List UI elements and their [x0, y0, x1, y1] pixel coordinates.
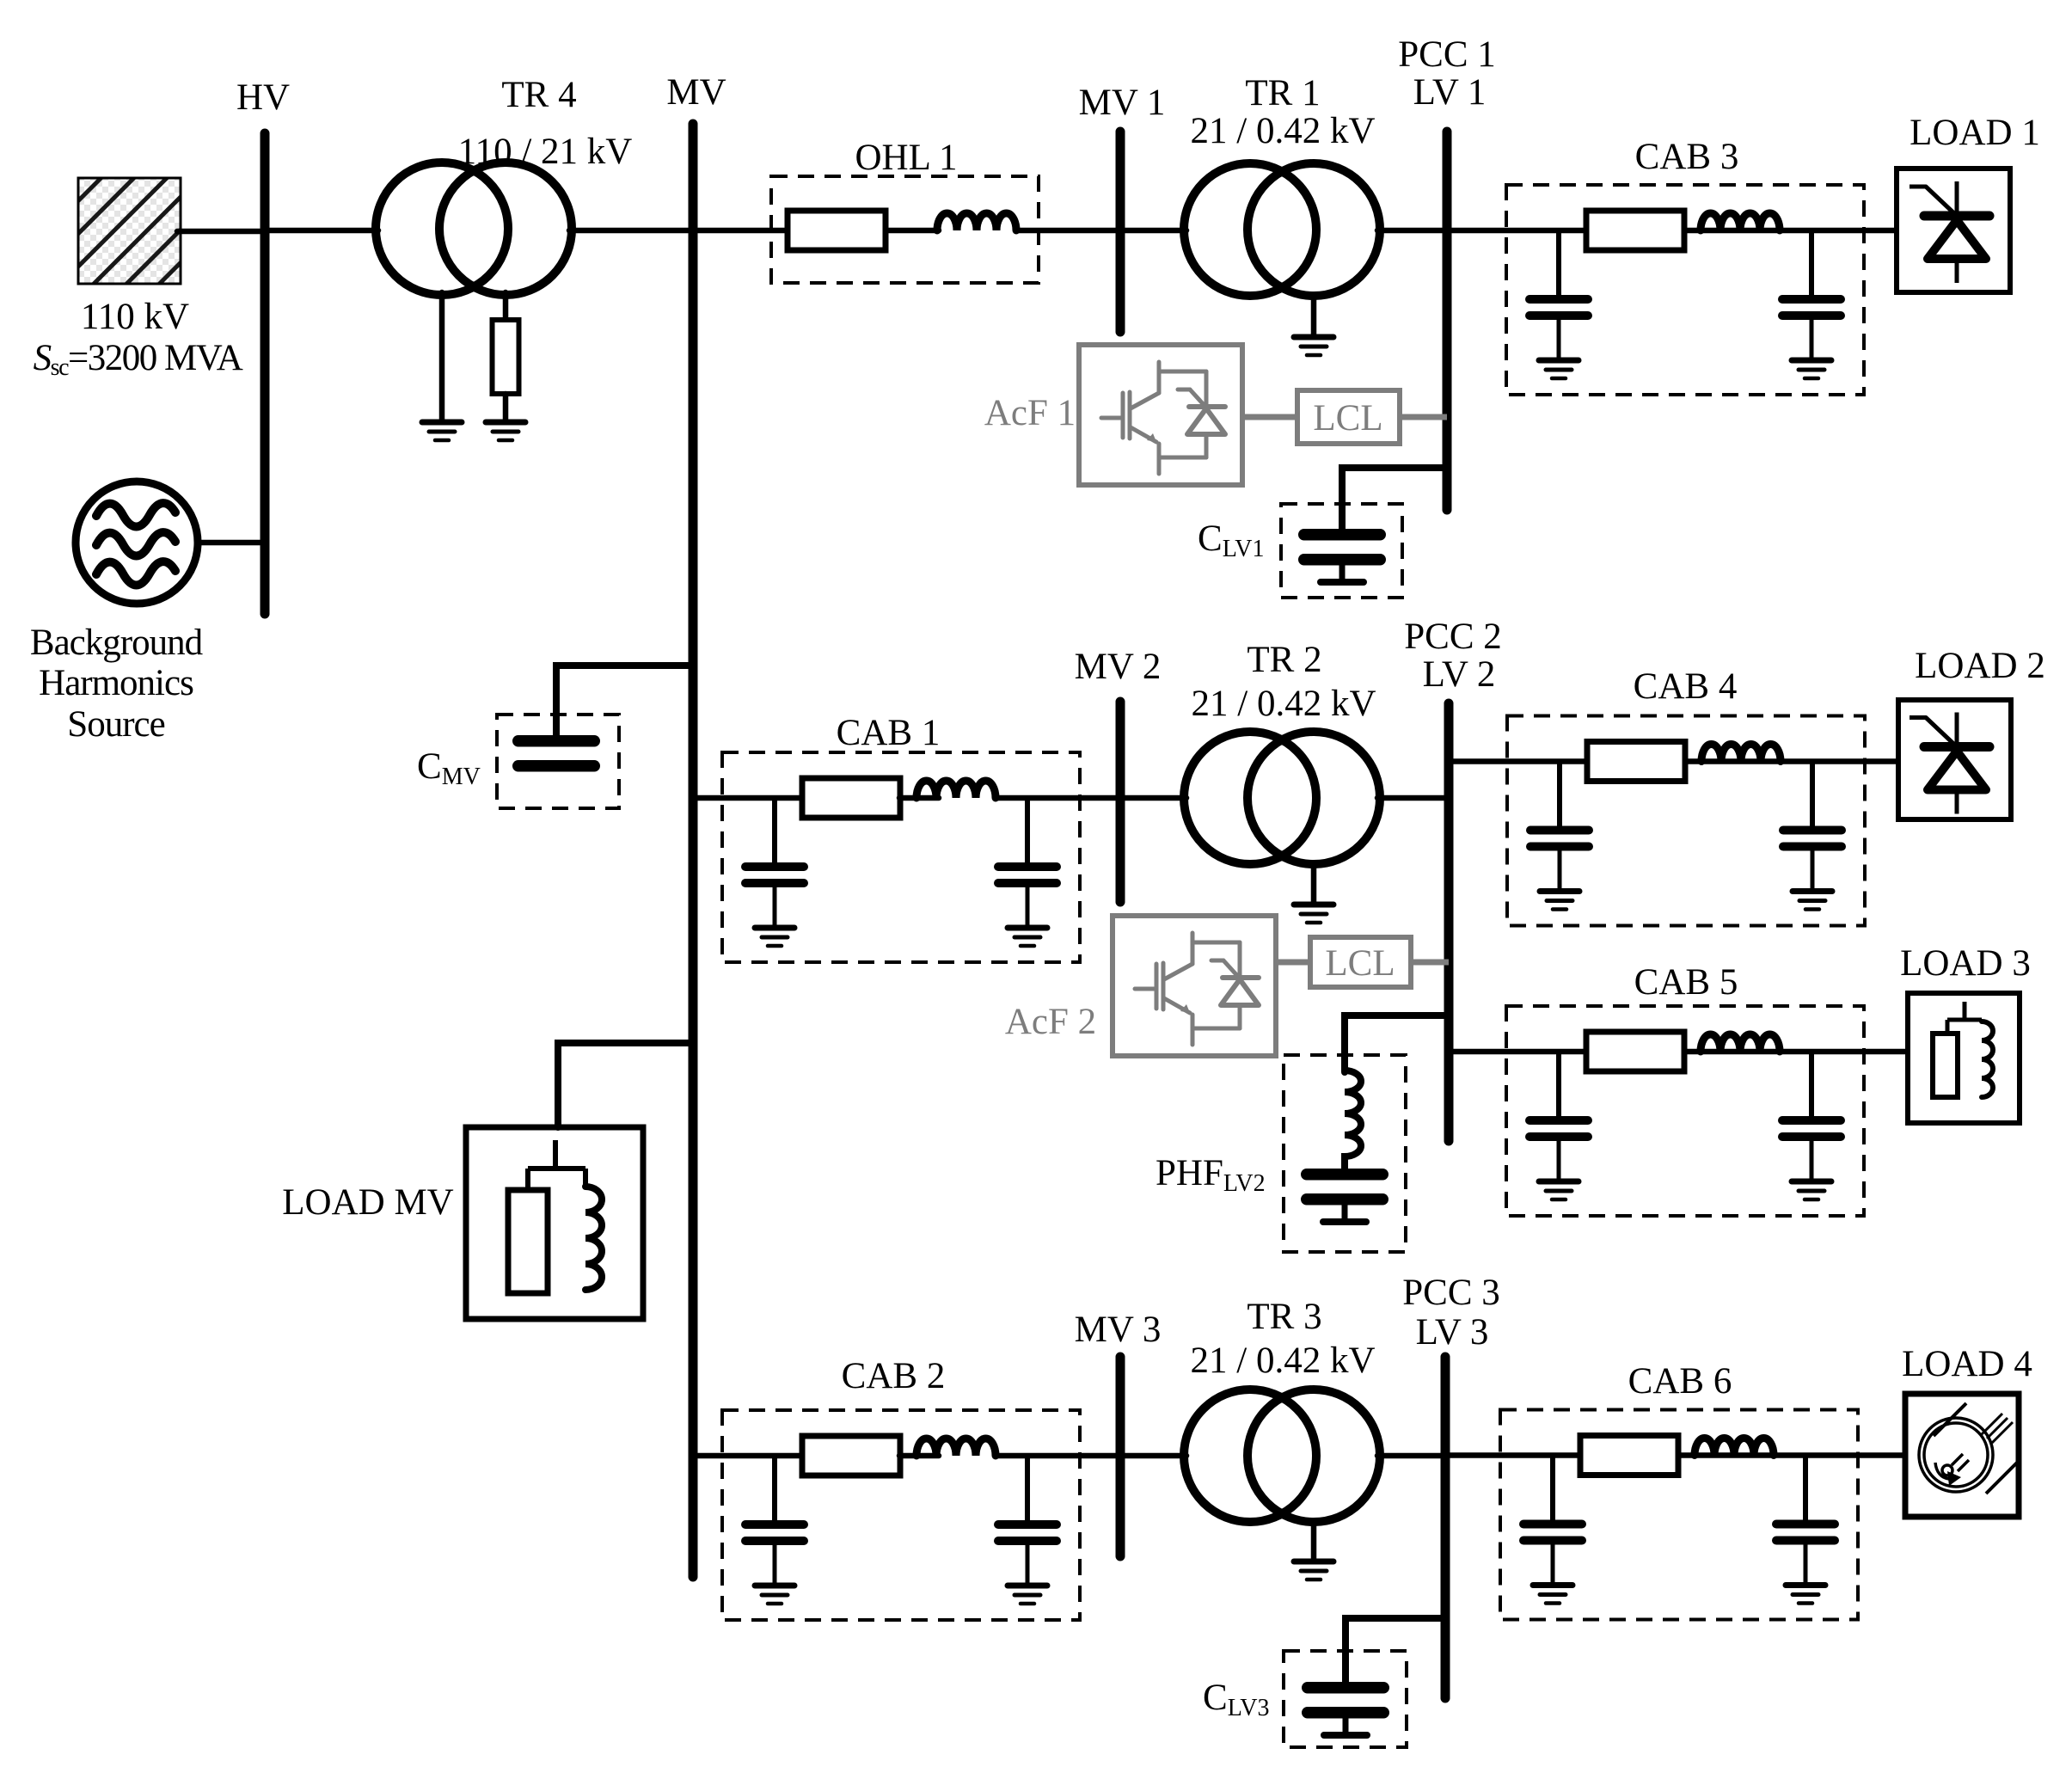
svg-text:AcF 1: AcF 1 [984, 393, 1076, 433]
wire OHL1 to MV1 bus [1016, 228, 1120, 234]
svg-text:MV 2: MV 2 [1075, 647, 1162, 687]
ground TR2 [1294, 905, 1333, 923]
wire LV3 bus to CAB6 / LOAD4 [1445, 1452, 1905, 1458]
svg-text:LCL: LCL [1313, 398, 1382, 439]
svg-text:LOAD 3: LOAD 3 [1900, 943, 2031, 984]
svg-text:TR 4: TR 4 [501, 75, 576, 115]
capacitor C LV1 [1298, 529, 1386, 586]
background harmonics source [76, 482, 198, 604]
svg-text:MV 1: MV 1 [1079, 83, 1166, 123]
svg-text:CAB 1: CAB 1 [837, 713, 941, 753]
wire harmonics source to HV bus [198, 540, 265, 546]
svg-text:LV 3: LV 3 [1416, 1312, 1489, 1353]
ground TR3 [1294, 1561, 1333, 1580]
wire MV bus through CAB1 [693, 795, 804, 801]
svg-text:LV 1: LV 1 [1413, 72, 1487, 113]
svg-text:TR 1: TR 1 [1245, 73, 1320, 113]
wire OHL1 resistor to inductor [886, 228, 939, 234]
svg-text:LOAD 4: LOAD 4 [1902, 1344, 2032, 1384]
load LOAD 3 (box) [1908, 993, 2020, 1123]
svg-text:PCC 1: PCC 1 [1398, 34, 1496, 75]
wire CAB2 resistor to inductor [899, 1453, 939, 1459]
transformer TR4 [376, 163, 572, 295]
ground TR4 primary [422, 422, 462, 440]
cable CAB 3 [1506, 185, 1864, 395]
wire MV bus through CAB2 [693, 1453, 804, 1459]
dashed box CMV [497, 715, 619, 808]
ground TR1 [1294, 337, 1333, 355]
svg-text:OHL 1: OHL 1 [855, 138, 957, 178]
svg-text:21 / 0.42 kV: 21 / 0.42 kV [1191, 1340, 1376, 1381]
wire MV bus to CMV [556, 666, 693, 737]
filter LCL2 (box) [1310, 937, 1411, 987]
wire MV bus to LOAD MV [558, 1043, 693, 1127]
wire CAB1 to MV2 bus [997, 795, 1120, 801]
svg-text:PCC 2: PCC 2 [1404, 617, 1502, 657]
cable CAB 1 [722, 752, 1080, 962]
svg-text:LCL: LCL [1325, 943, 1395, 984]
resistor TR4 grounding [493, 320, 519, 394]
thyristor LOAD2 [1910, 713, 1989, 814]
filter LCL1 (box) [1297, 390, 1400, 444]
load LOAD 1 (box) [1897, 169, 2010, 292]
load LOAD 4 (box) [1905, 1394, 2019, 1517]
bus MV 2 [1116, 702, 1125, 902]
svg-text:Harmonics: Harmonics [39, 663, 193, 703]
wire LV2 bus to PHF [1345, 1015, 1449, 1072]
wire LV3 bus to CLV3 [1346, 1618, 1445, 1684]
wire TR4 to MV bus [569, 228, 693, 234]
wire HV bus to TR4 [265, 228, 378, 234]
ground TR4 secondary [486, 422, 525, 440]
capacitor PHF [1301, 1169, 1388, 1225]
inverter icon AcF2 [1135, 933, 1259, 1045]
svg-text:MV 3: MV 3 [1075, 1310, 1162, 1350]
wire grounding resistor to ground [503, 394, 509, 422]
wire MV bus to OHL1 resistor [693, 228, 790, 234]
wire TR4 primary to ground [439, 292, 445, 422]
svg-text:MV: MV [666, 72, 726, 113]
active filter AcF1 (box) [1079, 345, 1242, 485]
svg-text:110 / 21 kV: 110 / 21 kV [458, 132, 633, 172]
cable CAB 4 [1507, 716, 1865, 926]
resistor OHL1 [788, 211, 886, 250]
transformer TR2 [1184, 732, 1380, 864]
dashed box CLV1 [1281, 504, 1402, 598]
wire TR4 secondary to grounding resistor [503, 292, 509, 320]
svg-text:21 / 0.42 kV: 21 / 0.42 kV [1192, 684, 1376, 724]
cable CAB 5 [1506, 1006, 1864, 1216]
bus PCC3 / LV3 [1441, 1357, 1450, 1698]
capacitor C MV [512, 735, 600, 772]
wire MV2 bus to TR2 [1120, 795, 1186, 801]
transformer TR3 [1184, 1390, 1380, 1522]
dashed box PHF LV2 [1284, 1055, 1406, 1252]
wire LCL2 to LV2 bus [1411, 960, 1449, 966]
load LOAD MV (box) [466, 1127, 643, 1319]
wire CAB2 to MV3 bus [997, 1453, 1120, 1459]
wire TR3 to ground [1311, 1522, 1317, 1561]
line OHL 1 (dashed box) [771, 176, 1039, 283]
svg-text:LOAD MV: LOAD MV [282, 1182, 453, 1223]
wire MV1 bus to TR1 [1120, 228, 1186, 234]
thyristor LOAD1 [1910, 181, 1989, 283]
bus HV [261, 133, 270, 614]
wire LV2 bus to CAB5 / LOAD3 [1449, 1049, 1908, 1055]
svg-text:CAB 6: CAB 6 [1628, 1361, 1732, 1402]
wire TR3 to LV3 bus [1377, 1453, 1445, 1459]
dashed box CLV3 [1284, 1651, 1407, 1747]
wire LV1 bus to CAB3 / LOAD1 [1447, 228, 1897, 234]
svg-text:LOAD 2: LOAD 2 [1915, 646, 2045, 686]
svg-text:HV: HV [236, 77, 290, 118]
bus MV 3 [1116, 1357, 1125, 1556]
bus MV 1 [1116, 132, 1125, 332]
svg-text:CAB 3: CAB 3 [1635, 137, 1739, 177]
svg-text:LV 2: LV 2 [1423, 654, 1496, 695]
inverter icon AcF1 [1101, 362, 1225, 474]
active filter AcF2 (box) [1113, 916, 1276, 1056]
wire TR2 to ground [1311, 864, 1317, 905]
transformer TR1 [1184, 163, 1380, 296]
RL load icon LOAD3 [1933, 1002, 1993, 1097]
wire LCL1 to LV1 bus [1400, 414, 1447, 420]
wire source to HV bus [177, 229, 265, 235]
wire LV2 bus to CAB4 / LOAD2 [1449, 758, 1898, 764]
svg-text:CAB 2: CAB 2 [842, 1356, 946, 1396]
bus MV [689, 124, 698, 1577]
load LOAD 2 (box) [1898, 700, 2011, 819]
wire TR1 to LV1 bus [1377, 228, 1447, 234]
inductor PHF (vertical) [1345, 1071, 1361, 1169]
inductor OHL1 [937, 213, 1016, 230]
svg-text:TR 3: TR 3 [1247, 1297, 1321, 1337]
wire LV1 bus to CLV1 [1342, 468, 1447, 531]
svg-text:110 kV: 110 kV [81, 297, 189, 337]
capacitor C LV3 [1302, 1682, 1389, 1739]
110 kV source (hatched box) [78, 178, 181, 284]
svg-text:AcF 2: AcF 2 [1005, 1002, 1096, 1042]
svg-text:PCC 3: PCC 3 [1402, 1273, 1500, 1313]
wire AcF2 to LCL2 [1276, 960, 1310, 966]
motor icon LOAD4 [1919, 1403, 2017, 1494]
wire AcF1 to LCL1 [1242, 414, 1297, 420]
svg-text:Background: Background [30, 623, 203, 663]
cable CAB 6 [1500, 1410, 1858, 1620]
bus PCC1 / LV1 [1443, 132, 1452, 510]
svg-text:Source: Source [67, 704, 164, 745]
svg-text:TR 2: TR 2 [1247, 640, 1321, 680]
cable CAB 2 [722, 1410, 1080, 1620]
wire MV3 bus to TR3 [1120, 1453, 1186, 1459]
wire TR2 to LV2 bus [1377, 795, 1449, 801]
svg-text:21 / 0.42 kV: 21 / 0.42 kV [1191, 111, 1376, 151]
wire TR1 to ground [1311, 296, 1317, 337]
svg-text:CAB 4: CAB 4 [1634, 666, 1738, 707]
wire CAB1 resistor to inductor [899, 795, 939, 801]
RL load icon LOAD MV [508, 1140, 602, 1293]
bus PCC2 / LV2 [1444, 703, 1454, 1141]
svg-text:LOAD 1: LOAD 1 [1910, 113, 2040, 153]
svg-text:CAB 5: CAB 5 [1634, 962, 1738, 1003]
